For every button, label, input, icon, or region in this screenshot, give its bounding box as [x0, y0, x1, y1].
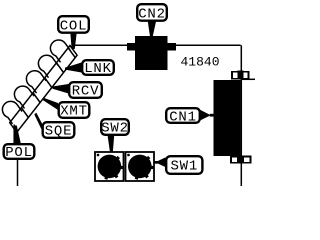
svg-text:SW1: SW1: [170, 159, 198, 175]
svg-text:CN2: CN2: [138, 7, 166, 23]
svg-text:XMT: XMT: [60, 104, 88, 120]
svg-text:CN1: CN1: [169, 110, 197, 126]
svg-text:SQE: SQE: [45, 124, 73, 140]
svg-text:SW2: SW2: [101, 121, 129, 137]
svg-text:COL: COL: [60, 19, 88, 35]
svg-text:POL: POL: [5, 145, 33, 161]
svg-text:RCV: RCV: [72, 84, 100, 100]
svg-text:41840: 41840: [181, 55, 220, 70]
svg-text:LNK: LNK: [84, 61, 112, 77]
